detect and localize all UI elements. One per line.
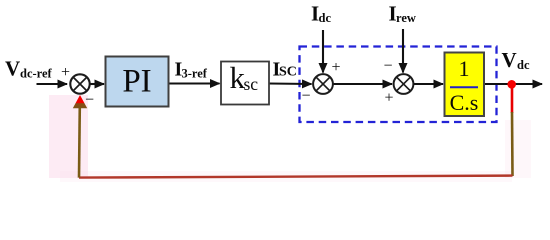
svg-text:V: V bbox=[5, 57, 20, 81]
svg-text:3-ref: 3-ref bbox=[182, 67, 208, 81]
svg-text:1: 1 bbox=[459, 56, 470, 81]
svg-text:dc-ref: dc-ref bbox=[20, 67, 53, 81]
svg-text:C.s: C.s bbox=[450, 90, 479, 115]
svg-text:V: V bbox=[502, 48, 517, 72]
svg-text:rew: rew bbox=[396, 11, 416, 25]
svg-text:+: + bbox=[384, 90, 393, 107]
svg-text:PI: PI bbox=[122, 63, 151, 99]
svg-text:−: − bbox=[383, 58, 392, 75]
svg-text:+: + bbox=[331, 59, 340, 76]
svg-text:+: + bbox=[61, 64, 70, 81]
svg-text:SC: SC bbox=[279, 65, 297, 80]
svg-text:dc: dc bbox=[319, 11, 332, 25]
svg-text:−: − bbox=[301, 88, 310, 105]
svg-text:dc: dc bbox=[517, 58, 530, 72]
svg-text:sc: sc bbox=[244, 74, 259, 94]
svg-text:−: − bbox=[85, 92, 94, 109]
